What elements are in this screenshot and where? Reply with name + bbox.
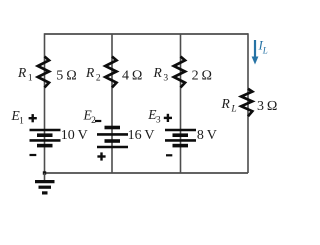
E3 plus [164,114,172,122]
battery E2 [97,128,128,148]
battery E1 [30,130,61,146]
resistor R3 [174,57,185,88]
svg-text:1: 1 [19,117,24,127]
svg-text:3: 3 [156,116,161,126]
svg-text:R: R [85,65,95,80]
svg-text:L: L [230,104,236,114]
E2 minus [95,120,101,122]
E1 minus [30,154,37,156]
current arrow IL [252,40,259,65]
wire right branch [247,33,249,173]
wire branch 3 [180,34,182,173]
svg-text:L: L [262,46,268,56]
E2 plus [97,152,105,160]
svg-text:10 V: 10 V [61,128,88,143]
svg-text:1: 1 [28,73,33,83]
svg-text:4 Ω: 4 Ω [122,69,143,84]
wire top rail [45,33,249,35]
node junction dot [43,171,46,174]
svg-text:2 Ω: 2 Ω [192,69,213,84]
svg-text:R: R [221,96,231,111]
resistor R2 [105,57,116,88]
battery E3 [165,130,196,146]
E1 plus [29,114,37,122]
svg-text:5 Ω: 5 Ω [56,69,77,84]
E3 minus [166,154,172,156]
svg-text:8 V: 8 V [197,128,217,143]
svg-text:R: R [153,65,163,80]
svg-text:2: 2 [96,73,101,83]
svg-text:R: R [17,65,27,80]
resistor RL [241,89,252,117]
wire bottom rail [45,172,249,174]
ground [35,182,55,193]
svg-text:3 Ω: 3 Ω [257,99,278,114]
wire ground stub [44,173,46,181]
wire branch 1 [44,33,46,173]
resistor R1 [38,57,49,88]
svg-text:3: 3 [163,73,168,83]
wire branch 2 [111,34,113,173]
svg-text:16 V: 16 V [128,128,155,143]
